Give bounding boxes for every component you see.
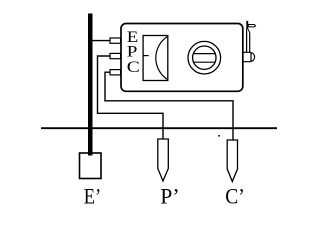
side clip diagonal	[248, 29, 250, 33]
terminal stub C	[110, 70, 121, 75]
meter tick	[143, 55, 149, 57]
dial outer circle	[188, 41, 221, 74]
probe P'	[158, 139, 169, 181]
meter scale arc	[156, 36, 168, 79]
stray dot	[218, 135, 220, 137]
side clip lever bar	[246, 21, 248, 29]
wire P: stub P to probe P'	[98, 56, 164, 139]
meter window	[143, 36, 168, 81]
svg-text:C’: C’	[225, 183, 245, 208]
wire E: bar to stub E	[93, 40, 111, 42]
terminal stub E	[110, 38, 121, 43]
probe C'	[227, 140, 237, 182]
E' terminal box	[80, 153, 102, 179]
dial slot upper line	[194, 53, 216, 55]
side clip cup	[243, 52, 255, 61]
wire C: stub C to probe C'	[105, 72, 233, 140]
surface line	[41, 127, 277, 129]
svg-text:P’: P’	[160, 183, 179, 208]
side clip right rod	[249, 34, 251, 53]
svg-text:C: C	[127, 59, 140, 76]
svg-text:E’: E’	[84, 183, 101, 208]
dial slot lower line	[194, 61, 215, 63]
side clip flag	[248, 25, 255, 27]
side clip left rod	[246, 29, 248, 52]
terminal stub P	[110, 53, 121, 58]
device box U1	[121, 24, 243, 92]
dial inner circle	[193, 46, 216, 69]
thick vertical bar (E' electrode)	[88, 14, 93, 156]
